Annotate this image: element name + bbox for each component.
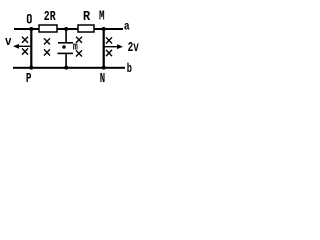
node M junction dot xyxy=(102,27,106,31)
node m dot xyxy=(62,45,65,48)
velocity arrow v left xyxy=(13,44,31,49)
capacitor top plate xyxy=(58,42,73,44)
field cross B6 xyxy=(76,50,82,56)
junction dot capacitor top xyxy=(64,27,68,31)
resistor R xyxy=(78,25,94,32)
node 0 junction dot xyxy=(29,27,33,31)
wire bottom rail xyxy=(13,67,125,69)
svg-text:N: N xyxy=(100,71,105,85)
svg-text:2v: 2v xyxy=(128,40,140,56)
field cross B3 xyxy=(44,38,50,44)
svg-text:R: R xyxy=(83,9,91,25)
conductor rod 0-P left xyxy=(30,28,32,68)
svg-text:b: b xyxy=(127,61,132,76)
field cross B1 xyxy=(22,37,28,43)
label 0 xyxy=(28,15,31,23)
field cross B4 xyxy=(44,49,50,55)
resistor 2R xyxy=(39,25,57,32)
svg-text:v: v xyxy=(5,34,12,49)
wire top rail xyxy=(14,28,123,30)
field cross B5 xyxy=(76,37,82,43)
field cross B7 xyxy=(106,37,112,43)
node P junction dot xyxy=(29,66,33,70)
velocity arrow 2v right xyxy=(104,44,123,49)
svg-text:m: m xyxy=(73,41,78,53)
capacitor bottom lead xyxy=(65,53,67,68)
junction dot capacitor bottom xyxy=(64,66,68,70)
svg-text:P: P xyxy=(26,71,32,85)
field cross B2 xyxy=(22,48,28,54)
field cross B8 xyxy=(106,50,112,56)
capacitor bottom plate xyxy=(58,53,74,55)
conductor rod M-N right xyxy=(103,28,105,68)
capacitor top lead xyxy=(65,28,67,43)
svg-text:a: a xyxy=(124,20,130,34)
svg-text:M: M xyxy=(99,9,105,24)
svg-text:2R: 2R xyxy=(44,9,56,25)
node N junction dot xyxy=(102,66,106,70)
